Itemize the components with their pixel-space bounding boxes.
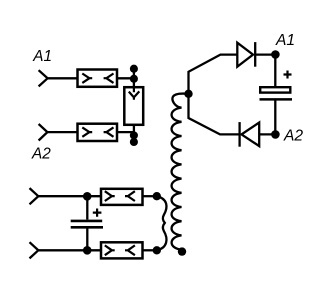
wire: [133, 125, 135, 136]
arrow right in B3: [125, 191, 135, 201]
capacitor C1 (polarized): [260, 87, 290, 92]
limiter box B4: [101, 242, 143, 258]
arrow left in B3: [105, 191, 115, 201]
arrow right in B4: [125, 245, 135, 255]
node A2: [271, 130, 280, 139]
arrow right in B1: [104, 74, 114, 83]
wire: [38, 195, 101, 197]
protection device box (vertical): [124, 87, 143, 125]
terminal input 4: [30, 242, 39, 258]
limiter box B2: [78, 124, 118, 141]
wire from D2 to coil node: [189, 94, 240, 135]
wire: [47, 131, 78, 133]
wire: [255, 53, 275, 55]
arrow left in B4: [105, 245, 115, 255]
plus sign C1: [284, 71, 292, 79]
svg-text:A2: A2: [283, 128, 303, 145]
node dot pair bottom: [130, 131, 138, 139]
wire: [48, 77, 78, 79]
node primary top: [153, 192, 161, 200]
node A1: [271, 50, 280, 59]
arrow left in B1: [82, 74, 92, 83]
svg-text:A1: A1: [32, 48, 52, 65]
svg-text:A2: A2: [31, 145, 51, 162]
capacitor C2 (polarized): [71, 220, 103, 223]
node dot pair top: [130, 65, 138, 73]
wire cap top lead: [86, 196, 88, 219]
node junction at coil top: [184, 90, 192, 98]
wire: [38, 249, 101, 251]
terminal A2: [39, 124, 48, 141]
diode D2: [242, 123, 260, 147]
wire: [259, 133, 275, 135]
wire: [274, 99, 276, 134]
node junction: [83, 246, 92, 255]
inductor L1 (secondary winding): [172, 94, 189, 251]
wire cap bottom lead: [86, 227, 88, 250]
wire: [143, 249, 157, 251]
limiter box B1: [78, 70, 118, 87]
wire to top diode: [189, 55, 238, 94]
node junction: [83, 192, 92, 201]
diode D1: [237, 43, 253, 67]
wire: [117, 131, 134, 133]
svg-text:A1: A1: [275, 32, 295, 49]
terminal A1: [39, 70, 48, 86]
limiter box B3: [101, 189, 143, 205]
inductor L2 (primary winding): [157, 196, 167, 250]
node coil bottom: [178, 247, 186, 255]
arrow right in B2: [104, 127, 114, 136]
arrow left in B2: [82, 127, 92, 136]
wire: [133, 69, 135, 88]
wire: [117, 77, 134, 79]
arrow down inside box: [129, 87, 140, 100]
plus sign C2: [93, 209, 102, 217]
wire: [143, 195, 157, 197]
wire: [274, 55, 276, 87]
terminal input 3: [30, 188, 39, 204]
node primary bottom: [153, 246, 161, 254]
